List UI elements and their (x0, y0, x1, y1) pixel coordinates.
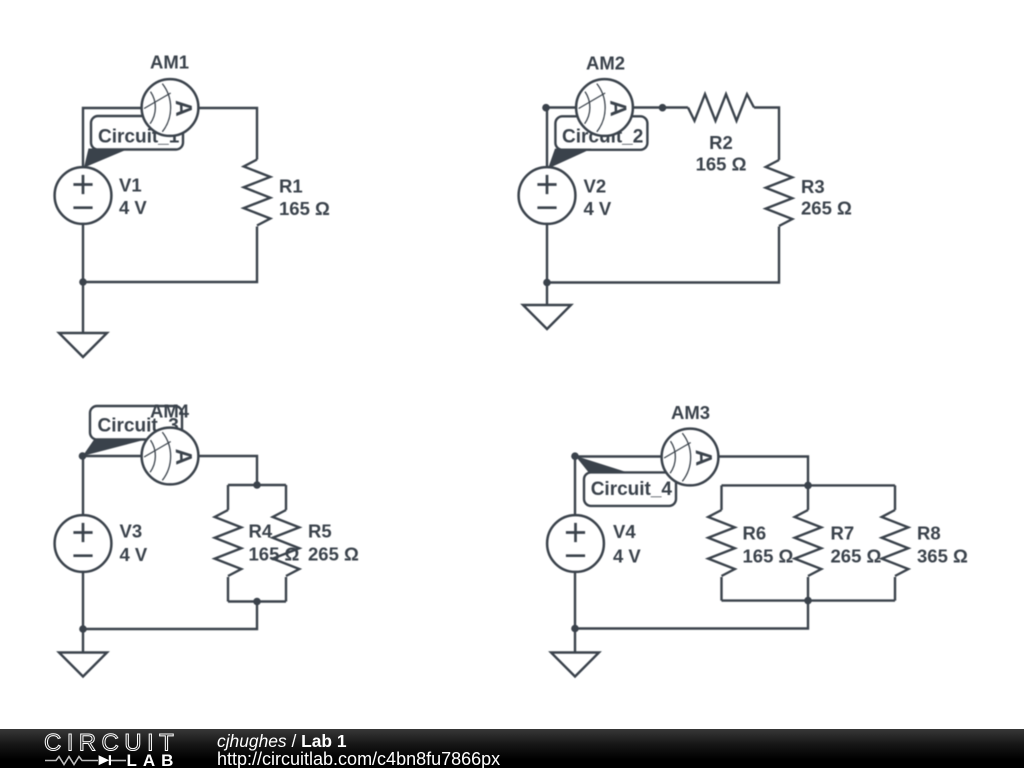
svg-text:4 V: 4 V (613, 546, 641, 567)
svg-text:R5: R5 (308, 521, 332, 542)
svg-text:AM2: AM2 (586, 53, 625, 74)
svg-text:R1: R1 (279, 176, 303, 197)
svg-text:165 Ω: 165 Ω (743, 546, 794, 567)
svg-text:265 Ω: 265 Ω (831, 546, 882, 567)
svg-text:265 Ω: 265 Ω (308, 544, 359, 565)
svg-text:365 Ω: 365 Ω (917, 546, 968, 567)
svg-text:V2: V2 (584, 176, 607, 197)
svg-text:165 Ω: 165 Ω (279, 198, 330, 219)
svg-text:R7: R7 (831, 523, 855, 544)
svg-text:AM1: AM1 (150, 52, 189, 73)
svg-text:4 V: 4 V (584, 198, 612, 219)
svg-text:V1: V1 (119, 175, 142, 196)
svg-text:R2: R2 (709, 132, 733, 153)
svg-text:265 Ω: 265 Ω (801, 198, 852, 219)
svg-text:165 Ω: 165 Ω (249, 544, 300, 565)
svg-text:R8: R8 (917, 523, 941, 544)
svg-text:Circuit_4: Circuit_4 (591, 479, 673, 500)
svg-text:R6: R6 (743, 523, 767, 544)
svg-text:4 V: 4 V (119, 197, 147, 218)
svg-text:R4: R4 (249, 521, 273, 542)
svg-text:V3: V3 (120, 521, 143, 542)
svg-text:AM4: AM4 (150, 401, 190, 422)
svg-text:4 V: 4 V (120, 544, 148, 565)
svg-text:V4: V4 (613, 521, 636, 542)
svg-text:165 Ω: 165 Ω (696, 154, 747, 175)
svg-text:LAB: LAB (127, 751, 180, 768)
svg-text:AM3: AM3 (671, 402, 710, 423)
svg-text:R3: R3 (801, 176, 825, 197)
